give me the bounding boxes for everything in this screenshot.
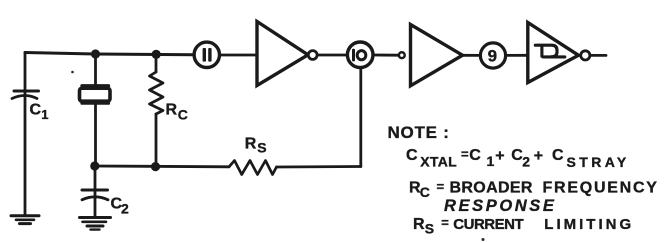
svg-text:C: C (406, 147, 418, 164)
wire lower rail right (277, 165, 361, 168)
inverter U3 triangle (528, 23, 579, 83)
svg-text:STRAY: STRAY (567, 154, 630, 170)
svg-text:FREQUENCY: FREQUENCY (543, 180, 659, 197)
svg-text:2: 2 (121, 200, 129, 216)
inverter U1 output bubble (308, 51, 317, 60)
inverter U3 output bubble (581, 51, 590, 60)
note line RC (409, 179, 659, 200)
svg-text:S: S (425, 221, 434, 237)
resistor RS zigzag (229, 161, 277, 175)
svg-text:R: R (245, 135, 257, 152)
junction dot top rail RC (152, 50, 161, 59)
wire node11 to U1 input (220, 54, 257, 57)
inverter U3 schmitt hysteresis symbol (535, 45, 565, 57)
speck (482, 238, 485, 241)
wire U2 output to node9 (462, 54, 480, 57)
label C1 (30, 101, 49, 122)
svg-text:=: = (437, 179, 445, 194)
ground under C1 (11, 216, 39, 224)
inverter U2 triangle (411, 25, 463, 86)
svg-text:1: 1 (487, 153, 495, 169)
svg-text:CURRENT: CURRENT (453, 216, 523, 233)
crystal Y1 plate bottom (82, 102, 109, 105)
crystal Y1 body (80, 88, 111, 101)
svg-text:LIMITING: LIMITING (544, 216, 634, 233)
wire node9 to U3 input (507, 54, 529, 57)
wire lower rail left (95, 165, 230, 169)
speck (71, 71, 74, 74)
wire C1 branch vertical (24, 53, 27, 215)
svg-text:+: + (534, 148, 543, 165)
wire RC branch upper (155, 55, 158, 73)
wire C2 branch (94, 166, 97, 216)
svg-text:=: = (461, 147, 469, 162)
junction dot top rail crystal (91, 49, 100, 58)
svg-text:=: = (441, 215, 449, 230)
inverter U2 input bubble (399, 52, 405, 58)
svg-text:C: C (552, 147, 564, 164)
crystal Y1 plate top (82, 84, 109, 87)
inverter U1 triangle (257, 22, 308, 86)
svg-text:NOTE :: NOTE : (388, 123, 450, 142)
svg-text:RESPONSE: RESPONSE (444, 197, 557, 215)
label RS (245, 135, 267, 155)
svg-text:+: + (495, 148, 504, 165)
junction dot lower rail RC (151, 162, 160, 171)
svg-text:1: 1 (41, 107, 48, 122)
node 9 circle (480, 43, 505, 68)
wire node10 drop (359, 68, 362, 167)
svg-text:C: C (420, 184, 430, 200)
node 10 label (352, 49, 366, 62)
capacitor C1 plate top (14, 90, 39, 93)
node 10 circle (347, 42, 373, 68)
svg-text:C: C (469, 147, 481, 164)
capacitor C2 plate top (82, 189, 108, 192)
label RC (166, 101, 188, 122)
svg-text:C: C (30, 101, 42, 118)
capacitor C2 plate curved (82, 197, 108, 200)
wire node10 to U2 input bubble (375, 54, 399, 57)
label C2 (111, 195, 130, 216)
node 11 label (203, 48, 212, 62)
svg-text:C: C (178, 107, 188, 123)
wire U3 output stub (592, 54, 607, 57)
wire RC branch lower (155, 114, 158, 166)
note line RS (413, 215, 634, 237)
node 11 circle (194, 42, 219, 67)
svg-text:R: R (413, 216, 425, 233)
capacitor C1 plate curved (12, 96, 37, 99)
resistor RC zigzag (150, 72, 164, 114)
svg-text:R: R (166, 101, 178, 118)
svg-text:S: S (257, 140, 266, 156)
svg-text:9: 9 (488, 47, 497, 66)
ground under C2 (80, 218, 111, 230)
svg-text:BROADER: BROADER (450, 180, 533, 197)
wire top rail (25, 53, 193, 55)
note line Cxtal (406, 147, 630, 170)
svg-text:XTAL: XTAL (420, 154, 457, 170)
wire U1 output to node10 (317, 54, 347, 57)
svg-text:2: 2 (522, 154, 530, 170)
junction dot lower rail crystal/C2 (90, 161, 99, 170)
wire crystal branch vertical (94, 54, 97, 166)
